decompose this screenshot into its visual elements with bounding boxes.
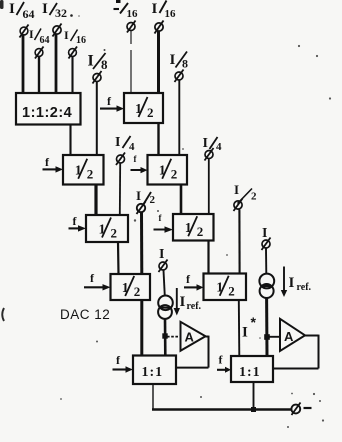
wire I to divider B4 (119, 164, 121, 216)
svg-text:2: 2 (171, 167, 178, 182)
wire B1 to divider B3 (157, 123, 159, 155)
junction on output rail (251, 407, 256, 412)
terminal node L (I/2 right) (234, 199, 243, 212)
svg-text:8: 8 (101, 57, 108, 72)
label I/64 (top row) (9, 1, 35, 21)
feedback wire A1 to B8 (176, 336, 209, 368)
terminal node C (35, 47, 44, 59)
f input arrow of B1 (100, 94, 124, 112)
svg-text:16: 16 (76, 35, 86, 46)
label I/4 right (203, 136, 223, 153)
terminal node D (69, 47, 78, 59)
wire CS1 to mirror B8 (164, 319, 167, 356)
terminal node B (53, 24, 62, 37)
divider block B5 (1/2) (173, 214, 214, 241)
current source CS2 (259, 274, 274, 298)
svg-text:1:1:2:4: 1:1:2:4 (22, 105, 72, 121)
mirror block B8 (1:1) (133, 356, 176, 385)
label I/16 (inline) (64, 28, 86, 46)
label I/4 left (115, 135, 135, 153)
wire A to divider box (22, 36, 25, 94)
svg-text:8: 8 (182, 57, 188, 71)
terminal node F (I/16) (155, 21, 164, 34)
svg-text:16: 16 (165, 8, 177, 20)
svg-text:I: I (64, 28, 69, 42)
svg-text:2: 2 (87, 167, 94, 182)
svg-text:1:1: 1:1 (142, 365, 164, 380)
specks (60, 45, 331, 428)
ratio block U0 1:1:2:4 (16, 93, 81, 125)
terminal node N (I right) (262, 238, 271, 251)
svg-text:I: I (42, 1, 48, 17)
label I/8 right (170, 52, 189, 71)
page edge mark left (2, 308, 4, 321)
wire L to divider B7 (238, 210, 240, 274)
svg-text:4: 4 (216, 141, 222, 153)
wire G to divider B2 (96, 82, 98, 155)
label I/8 left (88, 49, 109, 72)
feedback wire A2 to B9 (273, 335, 319, 369)
f input arrow of B8 (113, 353, 134, 373)
f input arrow of B2 (43, 155, 64, 173)
divider block B3 (1/2) (148, 155, 188, 185)
wire K to divider B6 (140, 213, 143, 275)
svg-text:I: I (203, 136, 208, 151)
svg-text:I: I (234, 182, 239, 197)
svg-text:64: 64 (40, 35, 50, 46)
terminal node G (I/8 left) (93, 71, 102, 84)
label I/2 left (136, 188, 156, 206)
f input arrow of B7 (184, 272, 204, 291)
f input arrow of B9 (217, 353, 231, 373)
wire B to divider box (55, 35, 58, 94)
svg-text:I: I (115, 135, 120, 150)
divider block B6 (1/2) (111, 274, 151, 300)
svg-text:I: I (242, 325, 248, 341)
terminal node I (I/4 left) (116, 153, 125, 166)
wire junction to op-amp A2 (269, 336, 280, 338)
wire junction to op-amp A1 (167, 336, 181, 338)
label I/64 (inline) (29, 27, 50, 46)
svg-text:A: A (185, 330, 195, 345)
svg-text:2: 2 (150, 194, 156, 206)
svg-text:*: * (251, 314, 257, 330)
svg-text:64: 64 (23, 7, 35, 21)
divider block B7 (1/2) (204, 274, 247, 301)
label I/2 right (234, 182, 257, 204)
junction on CS1 output (162, 333, 167, 338)
f input arrow of B4 (69, 214, 87, 232)
label -/16 (top row) (114, 0, 139, 20)
terminal node J (I/4 right) (205, 148, 214, 161)
svg-text:I: I (159, 247, 164, 262)
page edge smudge top-left (0, 0, 4, 9)
wire B3 to divider B5 (180, 185, 183, 215)
svg-text:2: 2 (134, 284, 141, 299)
Iref arrow left (174, 288, 180, 316)
svg-text:I: I (136, 188, 141, 203)
f input arrow of B5 (154, 213, 174, 233)
op-amp A2 (280, 319, 305, 351)
output minus sign (304, 407, 312, 409)
label I/32 (top row) (42, 1, 80, 20)
wire B9 to output rail (253, 382, 255, 410)
svg-text:A: A (284, 329, 294, 344)
terminal node K (I/2 left) (137, 202, 146, 215)
wire B5 to divider B7 (207, 241, 209, 274)
svg-text:2: 2 (197, 224, 204, 239)
label Iref right (289, 275, 312, 293)
svg-text:32: 32 (55, 6, 67, 20)
label Iref left (180, 294, 202, 312)
label I* (242, 314, 257, 341)
wire U0 to divider B2 (69, 125, 71, 156)
wire F to divider B1 (thick) (157, 32, 160, 94)
wire D to divider box (71, 57, 73, 93)
svg-text:16: 16 (127, 8, 139, 20)
svg-text:4: 4 (129, 141, 135, 153)
svg-text:ref.: ref. (297, 282, 312, 293)
f input arrow of B3 (131, 154, 148, 173)
svg-text:2: 2 (111, 226, 118, 241)
divider block B1 (1/2) (124, 93, 163, 123)
svg-text:I: I (9, 1, 15, 17)
wire B6 to mirror B8 (140, 300, 143, 356)
svg-text:2: 2 (147, 105, 154, 120)
wire B8 to output rail (152, 384, 154, 410)
wire J to divider B5 (208, 159, 210, 214)
wire N to current source CS2 (265, 249, 267, 275)
output terminal (291, 403, 300, 416)
svg-text:I: I (152, 1, 158, 17)
wire C to divider box (38, 57, 40, 93)
terminal node M (I left) (159, 260, 168, 273)
svg-text:I: I (289, 275, 295, 291)
svg-text:ref.: ref. (187, 301, 202, 312)
svg-text:1:1: 1:1 (239, 365, 261, 380)
output rail wire (152, 408, 292, 410)
f input arrow of B6 (84, 271, 111, 291)
svg-text:I: I (262, 226, 267, 241)
svg-text:I: I (180, 294, 186, 310)
junction on CS2 output (264, 334, 270, 340)
terminal node E (-/16) (127, 21, 136, 33)
wire H to divider B3 (178, 81, 180, 156)
wire M to current source CS1 (164, 271, 165, 297)
svg-text:2: 2 (251, 191, 257, 203)
label I/16 (top row) (152, 1, 177, 21)
svg-text:I: I (29, 27, 34, 41)
wire B4 to divider B6 (117, 242, 120, 274)
terminal node H (I/8 right) (175, 70, 184, 83)
mirror block B9 (1:1) (231, 356, 273, 382)
svg-text:I: I (88, 53, 94, 70)
wire B7 to mirror B9 (238, 300, 241, 356)
op-amp A1 (181, 322, 206, 351)
wire E to divider B1 (thin, broken) (130, 31, 132, 93)
svg-text:I: I (170, 52, 176, 68)
wire CS2 to mirror B9 (265, 298, 268, 356)
current source CS1 (158, 296, 173, 319)
Iref arrow right (281, 267, 287, 298)
divider block B2 (1/2) (63, 155, 104, 185)
wire B2 to divider B4 (94, 185, 97, 216)
terminal I/64 node A (20, 25, 29, 38)
svg-text:DAC 12: DAC 12 (60, 307, 110, 322)
svg-text:2: 2 (228, 284, 235, 299)
divider block B4 (1/2) (86, 215, 128, 242)
